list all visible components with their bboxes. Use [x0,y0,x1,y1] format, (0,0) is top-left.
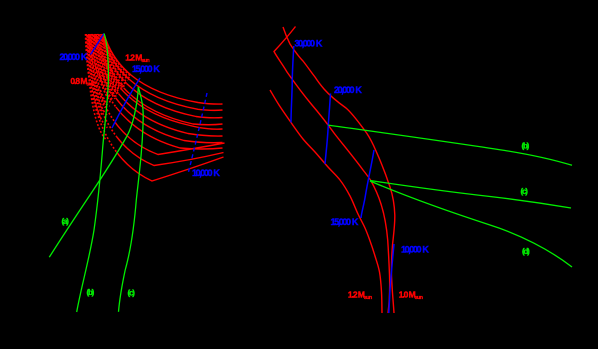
svg-text:15,000 K: 15,000 K [331,217,359,227]
30,000 K connector [291,46,294,123]
svg-text:20,000 K: 20,000 K [60,52,88,62]
green track (b) through fan [77,34,109,313]
left panel: solid isochrone turnoff branches [116,75,225,181]
green track (c) descending branch [119,87,144,312]
left 20,000 K temperature line [91,34,105,55]
10,000 K connector [389,244,394,313]
svg-text:30,000 K: 30,000 K [295,38,323,48]
right red track 1.2 Msun [270,90,382,313]
right blue temperature connectors [291,46,394,313]
right green lines [328,125,572,267]
green line (d) right panel [370,181,572,267]
green track (a) rising branch [49,87,138,257]
svg-text:10,000 K: 10,000 K [401,244,429,254]
right red track 1.0 Msun [283,27,395,313]
right red track middle with top hook [274,27,390,314]
svg-text:15,000 K: 15,000 K [132,64,160,74]
green line (b) right panel [328,125,572,165]
green line (c) right panel [370,181,571,209]
svg-text:20,000 K: 20,000 K [334,85,362,95]
left 10,000 K temperature line (dashed) [188,93,207,174]
left 15,000 K temperature line [112,78,140,128]
15,000 K connector [361,150,374,218]
svg-text:10,000 K: 10,000 K [192,168,220,178]
left panel: dotted main-sequence bundle of isochrones [86,34,131,152]
20,000 K connector [325,94,331,165]
